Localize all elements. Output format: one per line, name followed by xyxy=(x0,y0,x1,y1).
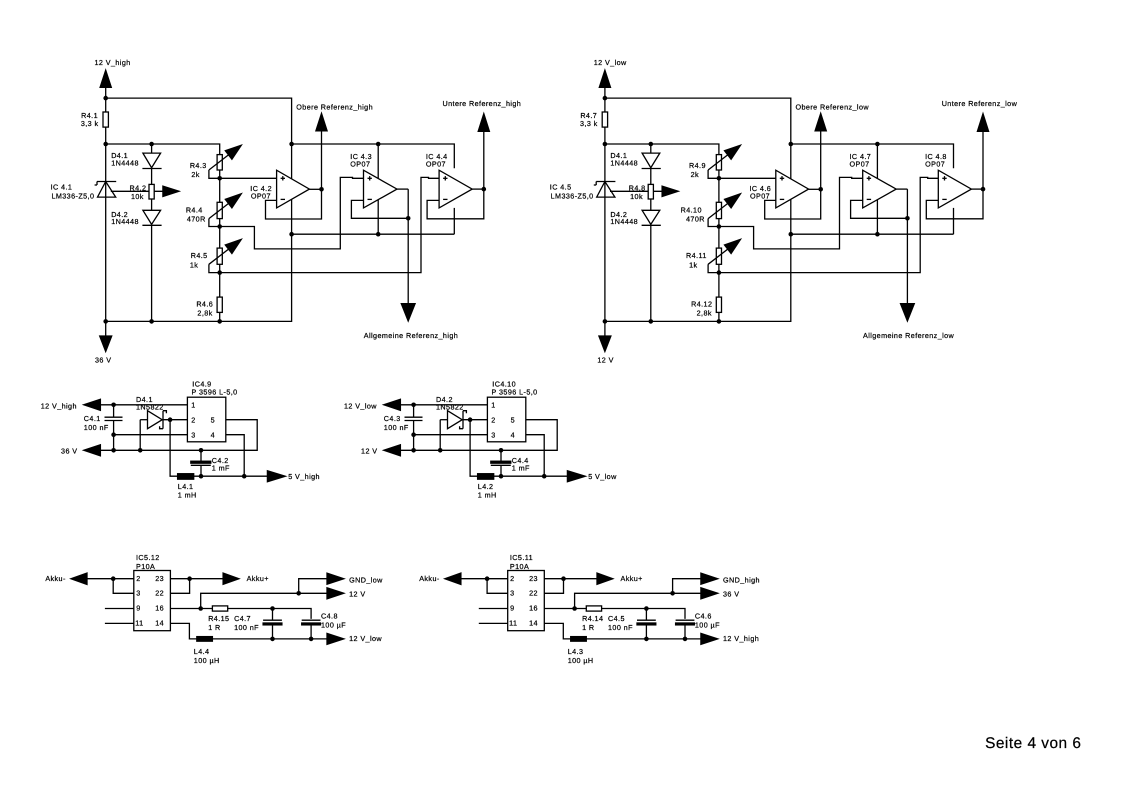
wire upper rail xyxy=(605,98,791,144)
junction dots xyxy=(411,403,546,479)
wire op-amp1 feedback xyxy=(266,189,322,219)
capacitor C4.4 xyxy=(491,450,530,476)
svg-text:C4.3: C4.3 xyxy=(384,414,401,423)
junction dots xyxy=(485,576,687,641)
wire pin 3 xyxy=(414,434,488,436)
svg-text:2: 2 xyxy=(191,416,195,425)
svg-text:22: 22 xyxy=(155,589,164,598)
wire to Obere Referenz_high xyxy=(321,131,323,189)
node Allgemeine Referenz_low xyxy=(863,304,955,340)
svg-text:GND_low: GND_low xyxy=(349,575,383,584)
svg-text:5: 5 xyxy=(211,416,215,425)
wire pin 3 xyxy=(114,434,188,436)
wire upper rail xyxy=(106,98,292,144)
wire op-amp2 feedback xyxy=(351,189,408,304)
wire pins 23/22 to Akku+ xyxy=(544,579,598,594)
svg-text:1: 1 xyxy=(191,400,195,409)
node 12 V_low (input arrow) xyxy=(344,399,400,410)
svg-text:P 3596 L-5,0: P 3596 L-5,0 xyxy=(492,388,538,397)
svg-text:12 V: 12 V xyxy=(361,447,377,456)
svg-text:1N4448: 1N4448 xyxy=(111,158,139,167)
svg-text:11: 11 xyxy=(509,619,517,628)
svg-text:Untere Referenz_low: Untere Referenz_low xyxy=(942,99,1018,108)
svg-text:OP07: OP07 xyxy=(925,160,945,169)
wire to GND_low xyxy=(299,579,329,594)
svg-text:LM336-Z5,0: LM336-Z5,0 xyxy=(51,192,94,201)
wire op-amp2 supply vertical xyxy=(377,144,379,234)
wire op-amp1 feedback xyxy=(765,189,821,219)
svg-text:9: 9 xyxy=(136,604,140,613)
inductor L4.3 xyxy=(568,637,594,666)
node 12 V (arrow) xyxy=(327,588,366,599)
svg-text:100 µH: 100 µH xyxy=(568,656,594,665)
wire 12 V_low rail (main vertical) xyxy=(604,87,606,321)
svg-text:12 V: 12 V xyxy=(597,356,613,365)
svg-text:Akku-: Akku- xyxy=(419,574,440,583)
svg-text:100 nF: 100 nF xyxy=(608,623,633,632)
svg-text:4: 4 xyxy=(511,430,515,439)
zener IC 4.5 LM336-Z5,0 xyxy=(550,182,616,201)
wire reference rail xyxy=(106,144,220,155)
node GND_low (arrow) xyxy=(327,573,383,584)
wire input to pin 1 xyxy=(399,404,487,406)
resistor R4.14 xyxy=(582,606,603,632)
svg-text:C4.5: C4.5 xyxy=(608,614,625,623)
svg-text:1 R: 1 R xyxy=(208,623,220,632)
op-amp IC 4.8 xyxy=(925,152,971,208)
diode D4.2 xyxy=(610,210,660,226)
svg-text:12 V_low: 12 V_low xyxy=(349,634,382,643)
trimmer R4.5 xyxy=(190,239,241,272)
wire op-amp2 feedback xyxy=(851,189,908,304)
svg-text:1N5822: 1N5822 xyxy=(436,403,464,412)
svg-text:2: 2 xyxy=(491,416,495,425)
node Akku+ (arrow) xyxy=(597,573,643,584)
svg-text:1 mF: 1 mF xyxy=(212,464,230,473)
svg-text:C4.6: C4.6 xyxy=(695,612,712,621)
op-amp IC 4.2 xyxy=(250,170,309,208)
svg-text:IC 4.1: IC 4.1 xyxy=(51,182,73,191)
wire pin 16 row xyxy=(544,609,685,619)
wire pin 14 to inductor xyxy=(170,623,196,639)
wire input to pin 1 xyxy=(99,404,187,406)
svg-text:3: 3 xyxy=(491,430,495,439)
wire bottom rail xyxy=(605,234,791,321)
svg-text:1k: 1k xyxy=(689,261,697,270)
node Akku- (arrow) xyxy=(45,573,87,584)
wire Akku- to pins 2/3 xyxy=(87,579,134,594)
capacitor C4.1 xyxy=(84,405,123,451)
svg-text:Akku+: Akku+ xyxy=(247,574,269,583)
wire wiper to op-amp + input xyxy=(220,177,277,179)
node 12 V_low (arrow) xyxy=(327,633,382,644)
resistor R4.7 xyxy=(580,111,608,128)
svg-text:OP07: OP07 xyxy=(850,160,870,169)
svg-text:1 mH: 1 mH xyxy=(478,491,497,500)
node Untere Referenz_low xyxy=(942,99,1018,131)
svg-text:R4.15: R4.15 xyxy=(208,614,229,623)
wire wiper to op-amp + input xyxy=(719,177,776,179)
resistor R4.12 xyxy=(691,297,721,317)
wire to GND_high xyxy=(673,579,703,594)
svg-text:16: 16 xyxy=(529,604,538,613)
svg-text:OP07: OP07 xyxy=(750,192,770,201)
svg-text:470R: 470R xyxy=(686,215,705,224)
svg-text:P10A: P10A xyxy=(510,562,529,571)
wire wiper2 to op-amp2 + input xyxy=(220,177,364,249)
svg-text:LM336-Z5,0: LM336-Z5,0 xyxy=(551,192,594,201)
svg-text:1N5822: 1N5822 xyxy=(136,403,164,412)
connector IC5.11 P10A xyxy=(508,553,545,631)
svg-text:1: 1 xyxy=(491,400,495,409)
pin 9 stub xyxy=(105,608,134,610)
inductor L4.2 xyxy=(478,474,497,500)
svg-text:100 nF: 100 nF xyxy=(234,623,259,632)
pin 11 stub xyxy=(105,622,134,624)
svg-text:4: 4 xyxy=(211,430,215,439)
resistor R4.6 xyxy=(196,297,222,317)
zener IC 4.1 LM336-Z5,0 xyxy=(51,182,117,201)
capacitor C4.5 xyxy=(608,609,656,639)
diode D4.2 (schottky) xyxy=(436,395,487,450)
svg-text:14: 14 xyxy=(529,619,538,628)
svg-text:R4.10: R4.10 xyxy=(681,205,702,214)
wire lower distribution xyxy=(791,233,954,235)
node 36 V (arrow) xyxy=(701,588,740,599)
svg-text:1 R: 1 R xyxy=(582,623,594,632)
svg-text:9: 9 xyxy=(510,604,514,613)
node 12 V_low (supply arrow) xyxy=(594,58,627,87)
resistor R4.1 xyxy=(81,111,109,128)
svg-text:3: 3 xyxy=(510,589,514,598)
capacitor C4.6 xyxy=(676,612,721,639)
trimmer R4.4 xyxy=(186,194,241,227)
resistor R4.15 xyxy=(208,606,229,632)
node Obere Referenz_low xyxy=(796,102,870,131)
svg-text:3,3 k: 3,3 k xyxy=(81,119,99,128)
wire op-amp2 supply vertical xyxy=(876,144,878,234)
svg-text:5: 5 xyxy=(511,416,515,425)
wire Akku- to pins 2/3 xyxy=(460,579,507,594)
pin 9 stub xyxy=(479,608,508,610)
wire reference rail xyxy=(605,144,719,155)
svg-text:Allgemeine Referenz_high: Allgemeine Referenz_high xyxy=(364,331,458,340)
svg-text:100 µF: 100 µF xyxy=(321,620,346,629)
wire output row to 12 V_high xyxy=(586,638,703,640)
svg-text:100 µF: 100 µF xyxy=(695,620,720,629)
node 36 V (rail arrow) xyxy=(61,445,100,456)
svg-text:2k: 2k xyxy=(191,170,199,179)
wire op-amp3 feedback xyxy=(926,189,983,219)
inductor L4.4 xyxy=(194,637,220,666)
svg-text:12 V_high: 12 V_high xyxy=(723,634,759,643)
op-amp IC 4.3 xyxy=(350,152,397,208)
svg-text:P10A: P10A xyxy=(136,562,155,571)
svg-text:36 V: 36 V xyxy=(61,447,77,456)
connector IC5.12 P10A xyxy=(134,553,171,631)
node Akku+ (arrow) xyxy=(223,573,269,584)
svg-text:2: 2 xyxy=(136,574,140,583)
svg-text:2,8k: 2,8k xyxy=(697,309,712,318)
svg-text:100 nF: 100 nF xyxy=(84,423,109,432)
wire switch node xyxy=(470,420,478,477)
wire upper distribution rail xyxy=(292,144,455,234)
wire pin 4 to output xyxy=(226,435,244,477)
trimmer R4.9 xyxy=(689,145,740,179)
wire 12 V_high rail (main vertical) xyxy=(105,87,107,321)
node GND_high (arrow) xyxy=(701,573,760,584)
svg-text:Akku+: Akku+ xyxy=(621,574,643,583)
op-amp IC 4.6 xyxy=(749,170,808,208)
diode D4.1 xyxy=(111,151,161,169)
wire diode branch xyxy=(650,144,652,321)
svg-text:Obere Referenz_high: Obere Referenz_high xyxy=(296,102,373,111)
node 5 V_low (output arrow) xyxy=(494,471,617,482)
junction dots xyxy=(111,576,314,641)
wire center vertical xyxy=(291,144,293,234)
svg-text:36 V: 36 V xyxy=(95,356,111,365)
svg-text:3: 3 xyxy=(191,430,195,439)
svg-text:10k: 10k xyxy=(131,192,144,201)
svg-text:1 mF: 1 mF xyxy=(512,464,530,473)
svg-text:R4.4: R4.4 xyxy=(186,205,203,214)
potentiometer R4.8 xyxy=(610,183,678,201)
wire bottom rail xyxy=(106,234,292,321)
svg-text:R4.14: R4.14 xyxy=(582,614,603,623)
svg-text:36 V: 36 V xyxy=(723,589,739,598)
svg-text:16: 16 xyxy=(155,604,164,613)
svg-text:IC5.12: IC5.12 xyxy=(136,553,160,562)
node 5 V_high (output arrow) xyxy=(194,471,320,482)
node 12 V_high (supply arrow) xyxy=(95,58,131,87)
svg-text:2k: 2k xyxy=(691,170,699,179)
wire wiper3 to op-amp3 + input xyxy=(719,177,938,272)
svg-text:R4.11: R4.11 xyxy=(686,251,707,260)
svg-text:1N4448: 1N4448 xyxy=(111,217,139,226)
wire output row to 12 V_low xyxy=(212,638,329,640)
svg-text:R4.12: R4.12 xyxy=(691,300,712,309)
inductor L4.1 xyxy=(178,474,197,500)
svg-text:OP07: OP07 xyxy=(350,160,370,169)
svg-text:Akku-: Akku- xyxy=(45,574,66,583)
svg-text:12 V_low: 12 V_low xyxy=(594,58,627,67)
svg-text:L4.4: L4.4 xyxy=(194,647,210,656)
svg-text:12 V_high: 12 V_high xyxy=(41,401,77,410)
wire pins 23/22 to Akku+ xyxy=(170,579,224,594)
node 36 V (bottom supply arrow) xyxy=(95,321,112,364)
wire pin 14 to inductor xyxy=(544,623,570,639)
junction dots xyxy=(603,96,986,324)
svg-text:IC5.11: IC5.11 xyxy=(510,553,533,562)
svg-text:OP07: OP07 xyxy=(251,192,271,201)
node Obere Referenz_high xyxy=(296,102,373,131)
node Untere Referenz_high xyxy=(443,99,522,131)
svg-text:1 mH: 1 mH xyxy=(178,491,197,500)
svg-text:IC 4.5: IC 4.5 xyxy=(550,182,572,191)
trimmer R4.10 xyxy=(681,194,741,227)
pin 11 stub xyxy=(479,622,508,624)
wire wiper3 to op-amp3 + input xyxy=(220,177,439,272)
trimmer R4.3 xyxy=(190,145,241,179)
node 12 V (bottom supply arrow) xyxy=(597,321,613,364)
diode D4.2 xyxy=(111,210,161,226)
svg-text:23: 23 xyxy=(529,574,538,583)
svg-text:5 V_high: 5 V_high xyxy=(288,472,320,481)
svg-text:12 V: 12 V xyxy=(349,589,365,598)
svg-text:100 nF: 100 nF xyxy=(384,423,409,432)
svg-text:Seite 4 von 6: Seite 4 von 6 xyxy=(985,735,1081,752)
svg-text:Untere Referenz_high: Untere Referenz_high xyxy=(443,99,522,108)
svg-text:C4.7: C4.7 xyxy=(234,614,251,623)
op-amp IC 4.4 xyxy=(426,152,472,208)
wire upper distribution rail xyxy=(791,144,954,234)
op-amp IC 4.7 xyxy=(850,152,897,208)
wire diode branch xyxy=(151,144,153,321)
svg-text:1N4448: 1N4448 xyxy=(610,217,638,226)
wire to Obere Referenz_low xyxy=(820,131,822,189)
junction dots xyxy=(111,403,246,479)
svg-text:R4.3: R4.3 xyxy=(190,161,207,170)
svg-text:R4.9: R4.9 xyxy=(689,161,706,170)
svg-text:3: 3 xyxy=(136,589,140,598)
wire bottom rail xyxy=(399,420,557,451)
svg-text:R4.5: R4.5 xyxy=(191,251,208,260)
wire center vertical xyxy=(790,144,792,234)
svg-text:470R: 470R xyxy=(187,215,206,224)
node Allgemeine Referenz_high xyxy=(364,304,458,340)
regulator IC4.10 P 3596 L-5,0 xyxy=(487,379,537,442)
svg-text:OP07: OP07 xyxy=(426,160,446,169)
wire lower distribution xyxy=(292,233,455,235)
svg-text:P 3596 L-5,0: P 3596 L-5,0 xyxy=(192,388,238,397)
wire divider column xyxy=(718,170,720,321)
capacitor C4.7 xyxy=(234,609,282,639)
node 12 V_high (input arrow) xyxy=(41,399,101,410)
capacitor C4.3 xyxy=(384,405,423,451)
trimmer R4.11 xyxy=(686,239,740,272)
svg-text:R4.6: R4.6 xyxy=(196,300,213,309)
wire to Untere Referenz_high xyxy=(483,131,485,189)
svg-text:1k: 1k xyxy=(190,261,198,270)
node Akku- (arrow) xyxy=(419,573,461,584)
wire wiper2 to op-amp2 + input xyxy=(719,177,863,249)
svg-text:L4.3: L4.3 xyxy=(568,647,584,656)
svg-text:10k: 10k xyxy=(630,192,643,201)
potentiometer R4.2 xyxy=(111,183,179,201)
diode D4.1 xyxy=(610,151,660,169)
svg-text:Allgemeine Referenz_low: Allgemeine Referenz_low xyxy=(863,331,955,340)
svg-text:14: 14 xyxy=(155,619,164,628)
svg-text:GND_high: GND_high xyxy=(723,575,760,584)
node 12 V_high (arrow) xyxy=(701,633,759,644)
wire bottom rail xyxy=(99,420,257,451)
svg-text:2,8k: 2,8k xyxy=(197,309,212,318)
svg-text:23: 23 xyxy=(155,574,164,583)
diode D4.1 (schottky) xyxy=(136,395,187,450)
node 12 V (rail arrow) xyxy=(361,445,400,456)
wire pin 16 to 12 V xyxy=(201,593,329,608)
capacitor C4.8 xyxy=(302,612,347,639)
svg-text:12 V_low: 12 V_low xyxy=(344,401,377,410)
wire pin 16 row xyxy=(170,609,311,619)
page number xyxy=(985,735,1081,752)
svg-text:3,3 k: 3,3 k xyxy=(580,119,598,128)
svg-text:12 V_high: 12 V_high xyxy=(95,58,131,67)
svg-text:22: 22 xyxy=(529,589,538,598)
svg-text:2: 2 xyxy=(510,574,514,583)
capacitor C4.2 xyxy=(191,450,230,476)
svg-text:Obere Referenz_low: Obere Referenz_low xyxy=(796,102,870,111)
svg-text:11: 11 xyxy=(135,619,143,628)
wire op-amp3 feedback xyxy=(427,189,484,219)
wire switch node xyxy=(170,420,178,477)
wire to Untere Referenz_low xyxy=(982,131,984,189)
wire divider column xyxy=(219,170,221,321)
wire pin 16 to 36 V xyxy=(575,593,703,608)
svg-text:5 V_low: 5 V_low xyxy=(588,472,617,481)
svg-text:1N4448: 1N4448 xyxy=(610,158,638,167)
wire pin 4 to output xyxy=(526,435,544,477)
svg-text:C4.8: C4.8 xyxy=(321,612,338,621)
svg-text:C4.1: C4.1 xyxy=(84,414,101,423)
svg-text:100 µH: 100 µH xyxy=(194,656,220,665)
junction dots xyxy=(103,96,486,324)
regulator IC4.9 P 3596 L-5,0 xyxy=(187,379,237,442)
